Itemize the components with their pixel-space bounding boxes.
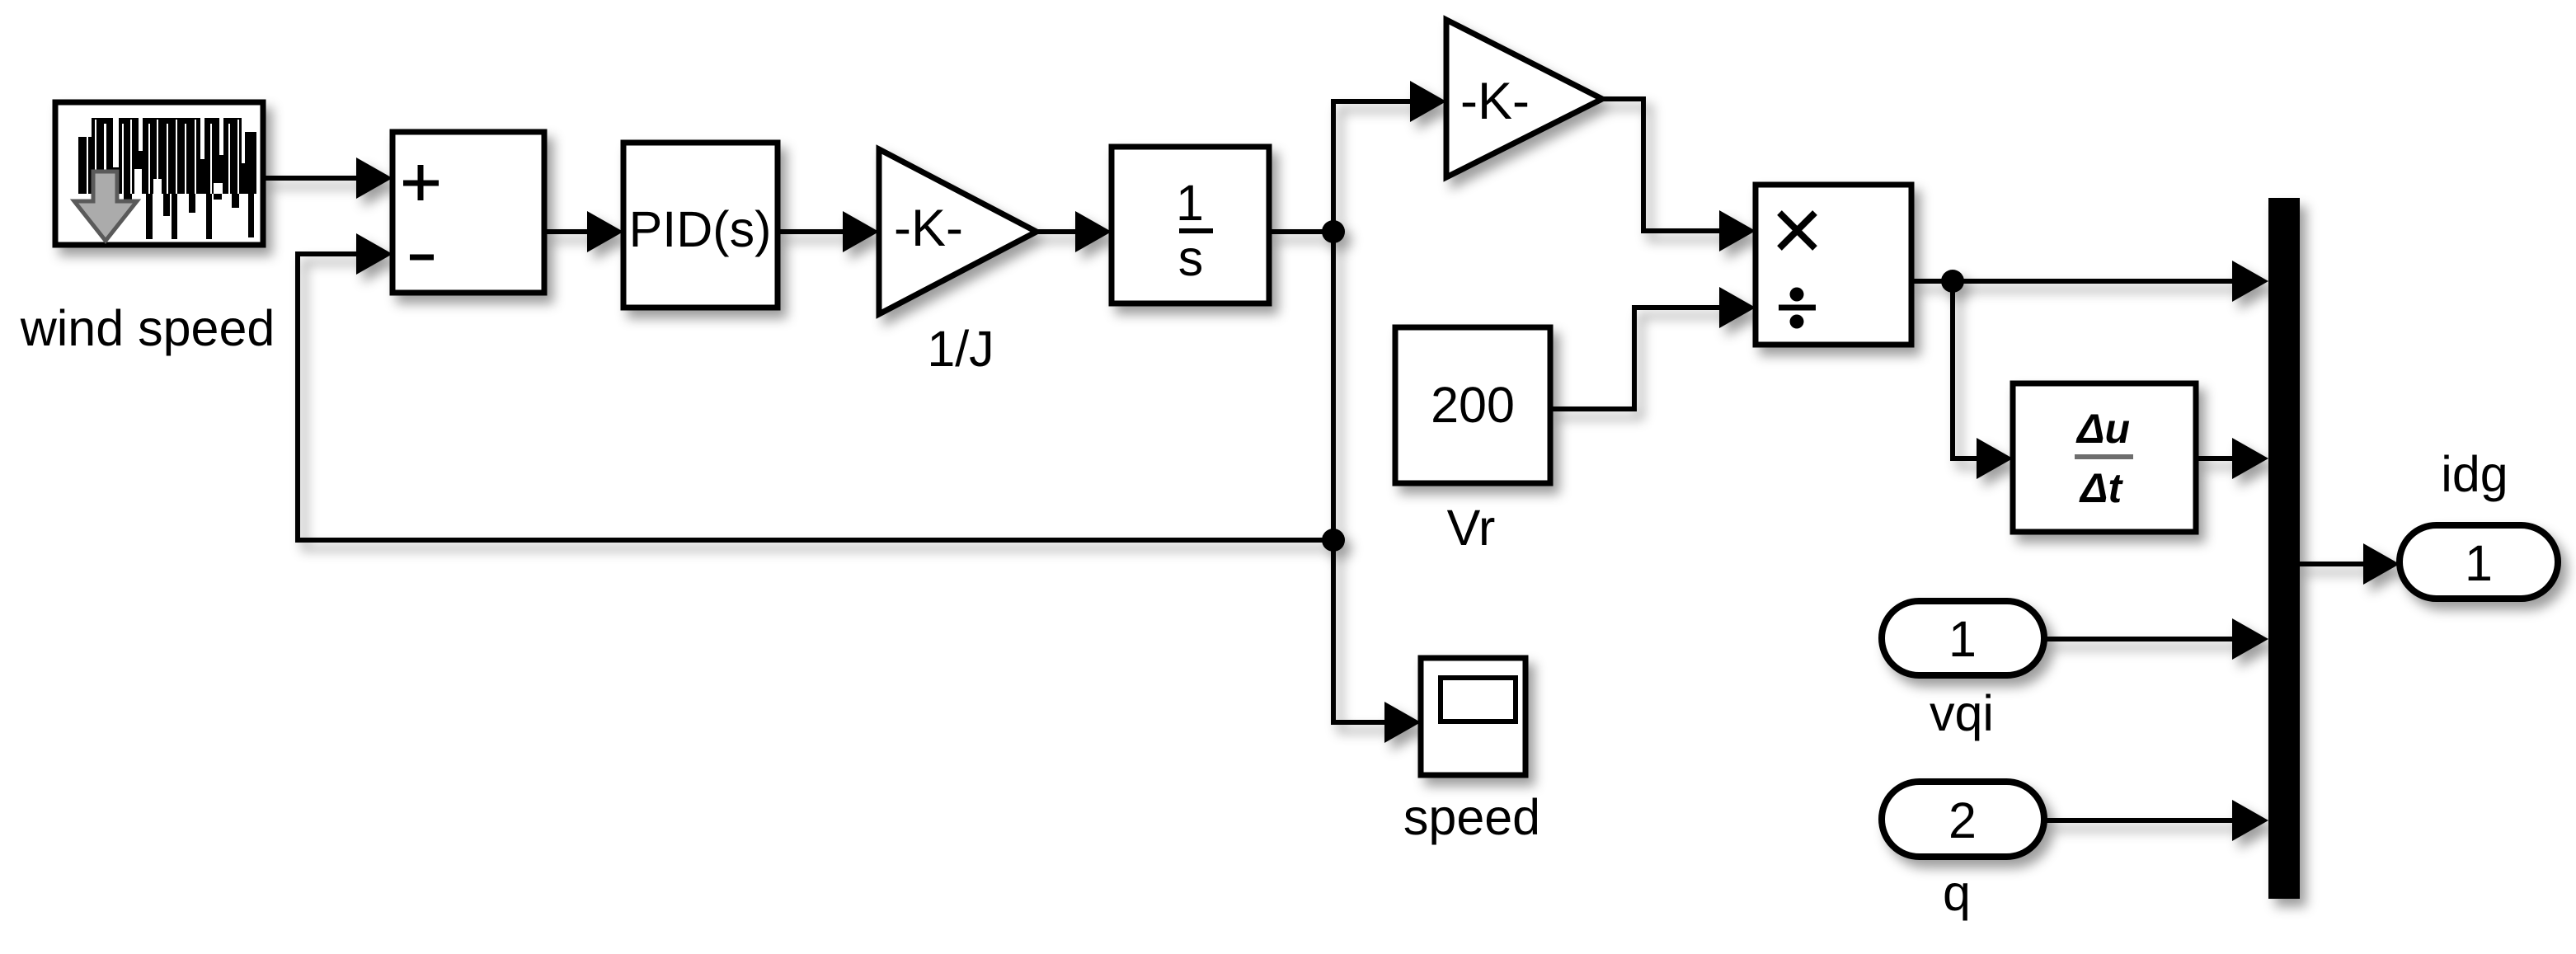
- wire trunk up to gain -K-: [1333, 81, 1446, 232]
- svg-text:PID(s): PID(s): [629, 201, 772, 257]
- junction dot at integrator output: [1322, 220, 1345, 243]
- svg-text:-K-: -K-: [1460, 73, 1530, 130]
- derivative du/dt block: [2013, 383, 2196, 532]
- wire trunk down to scope: [1333, 232, 1421, 743]
- wire sum to PID: [544, 211, 623, 252]
- svg-text:1/J: 1/J: [927, 321, 994, 377]
- wire PID to gain 1/J: [778, 211, 879, 252]
- wire source to sum: [263, 157, 393, 199]
- svg-text:200: 200: [1431, 377, 1515, 433]
- svg-text:speed: speed: [1403, 789, 1540, 845]
- svg-text:1: 1: [1176, 175, 1204, 231]
- svg-text:-K-: -K-: [894, 200, 963, 257]
- wire feedback from trunk to sum minus: [298, 233, 1333, 540]
- wire junction to derivative block: [1953, 281, 2013, 479]
- svg-text:s: s: [1178, 230, 1204, 286]
- mux bar: [2268, 198, 2300, 899]
- input port vqi oval: [1882, 601, 2044, 675]
- wire constant 200 to product divide input: [1550, 287, 1756, 409]
- input port q oval: [1882, 782, 2044, 857]
- wire derivative to mux: [2196, 438, 2268, 479]
- svg-text:Δt: Δt: [2079, 465, 2124, 511]
- wire gain -K- to product x input: [1602, 99, 1756, 251]
- svg-text:q: q: [1943, 865, 1971, 921]
- PID controller block: [623, 143, 778, 308]
- wire gain 1/J to integrator: [1037, 211, 1112, 252]
- wind speed source block: [55, 102, 263, 245]
- product block: [1756, 185, 1911, 345]
- svg-text:1: 1: [1948, 611, 1977, 667]
- integrator 1/s block: [1112, 147, 1269, 303]
- gain 1/J triangle: [879, 149, 1037, 314]
- wire vqi port to mux: [2044, 618, 2268, 660]
- gain -K- triangle top: [1446, 20, 1602, 177]
- svg-text:wind speed: wind speed: [20, 300, 275, 356]
- junction dot on feedback line: [1322, 529, 1345, 552]
- wire mux to idg port: [2300, 543, 2400, 585]
- output port idg oval: [2400, 525, 2558, 599]
- constant 200 block: [1395, 327, 1550, 483]
- svg-text:Δu: Δu: [2075, 406, 2130, 452]
- wire integrator to junction: [1269, 229, 1333, 234]
- svg-text:idg: idg: [2441, 446, 2508, 502]
- svg-text:1: 1: [2465, 535, 2493, 591]
- wire product output to mux: [1911, 261, 2268, 302]
- sum block: [393, 132, 544, 293]
- svg-text:2: 2: [1948, 792, 1977, 848]
- junction dot at product output: [1941, 270, 1964, 293]
- wire q port to mux: [2044, 800, 2268, 841]
- svg-text:Vr: Vr: [1447, 500, 1496, 556]
- svg-text:vqi: vqi: [1930, 685, 1994, 741]
- scope block: [1421, 658, 1525, 775]
